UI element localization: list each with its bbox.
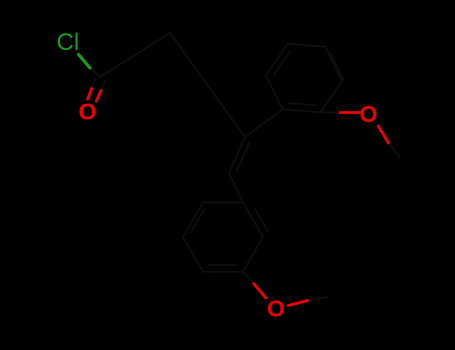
svg-text:O: O: [267, 296, 285, 322]
svg-text:O: O: [360, 101, 378, 127]
svg-text:O: O: [79, 99, 97, 125]
svg-text:Cl: Cl: [57, 29, 80, 56]
